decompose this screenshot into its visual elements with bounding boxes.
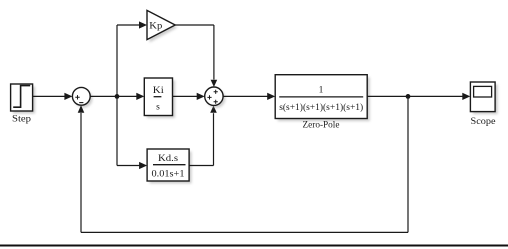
sum junction Sum1 [72, 87, 90, 105]
svg-text:s: s [156, 103, 160, 113]
sum junction Sum1 shadow [75, 90, 93, 108]
node output junction [406, 94, 411, 99]
scope Scope [470, 82, 495, 112]
wire Zero-Pole to Scope [367, 93, 470, 100]
wire branch up to Kp [117, 21, 147, 96]
svg-text:Scope: Scope [471, 117, 496, 127]
node branch point [115, 94, 120, 99]
gain Kp [147, 10, 175, 39]
integrator Ki shadow [147, 81, 175, 119]
svg-text:Ki: Ki [153, 86, 164, 96]
wire Kd to sum2 bottom [189, 106, 217, 166]
svg-text:0.01s+1: 0.01s+1 [152, 170, 185, 180]
gain Kp shadow [150, 13, 178, 43]
transfer function Zero-Pole shadow [278, 77, 370, 121]
bottom border line [0, 245, 508, 247]
step source Step [11, 84, 33, 111]
svg-text:Kd.s: Kd.s [158, 154, 178, 164]
integrator Ki [144, 78, 172, 116]
derivative Kd shadow [150, 152, 192, 184]
sum junction Sum2 shadow [207, 90, 225, 108]
wire sum1 to branch node [90, 95, 117, 97]
svg-text:Zero-Pole: Zero-Pole [303, 121, 340, 131]
derivative Kd [147, 149, 189, 181]
svg-text:s(s+1)(s+1)(s+1)(s+1): s(s+1)(s+1)(s+1)(s+1) [279, 102, 363, 113]
wire Kp to sum2 top [175, 25, 217, 87]
sum junction Sum2 [205, 87, 223, 105]
scope Scope shadow [473, 85, 498, 115]
step source Step shadow [13, 87, 35, 114]
wire step to sum1 [33, 93, 73, 100]
svg-text:1: 1 [319, 86, 324, 96]
svg-text:Step: Step [12, 115, 31, 125]
wire Ki to sum2 [173, 93, 205, 100]
wire feedback loop [78, 96, 408, 232]
wire branch down to Kd [117, 96, 147, 169]
svg-text:Kp: Kp [149, 22, 162, 32]
wire branch to Ki [117, 93, 144, 100]
transfer function Zero-Pole [275, 75, 367, 119]
wire sum2 to Zero-Pole [223, 93, 275, 100]
